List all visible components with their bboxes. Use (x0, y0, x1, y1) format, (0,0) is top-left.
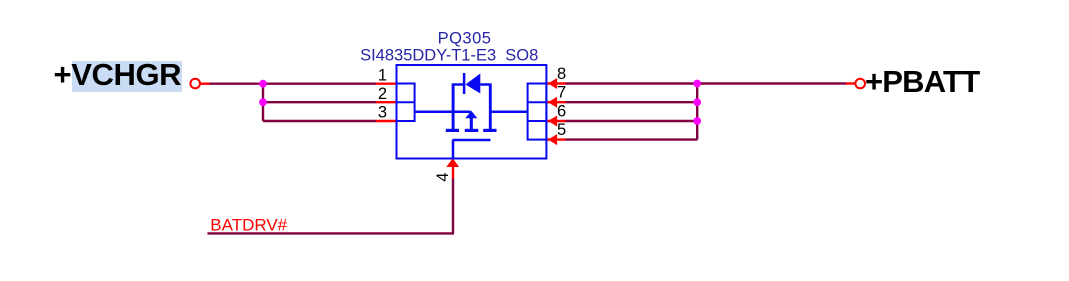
svg-text:BATDRV#: BATDRV# (210, 215, 287, 234)
svg-text:1: 1 (378, 66, 387, 84)
svg-text:+PBATT: +PBATT (865, 64, 980, 99)
svg-text:8: 8 (557, 65, 566, 83)
svg-text:3: 3 (378, 104, 387, 122)
svg-text:2: 2 (378, 85, 387, 103)
svg-text:SI4835DDY-T1-E3 SO8: SI4835DDY-T1-E3 SO8 (360, 47, 538, 65)
svg-text:PQ305: PQ305 (438, 29, 492, 47)
svg-text:6: 6 (557, 103, 566, 121)
svg-text:4: 4 (434, 173, 452, 182)
svg-text:7: 7 (557, 84, 566, 102)
svg-text:+VCHGR: +VCHGR (54, 57, 182, 92)
svg-text:5: 5 (557, 121, 566, 139)
